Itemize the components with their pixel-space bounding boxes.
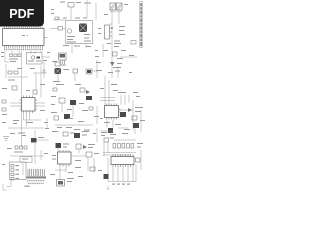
svg-text:PDF: PDF [9, 7, 34, 21]
